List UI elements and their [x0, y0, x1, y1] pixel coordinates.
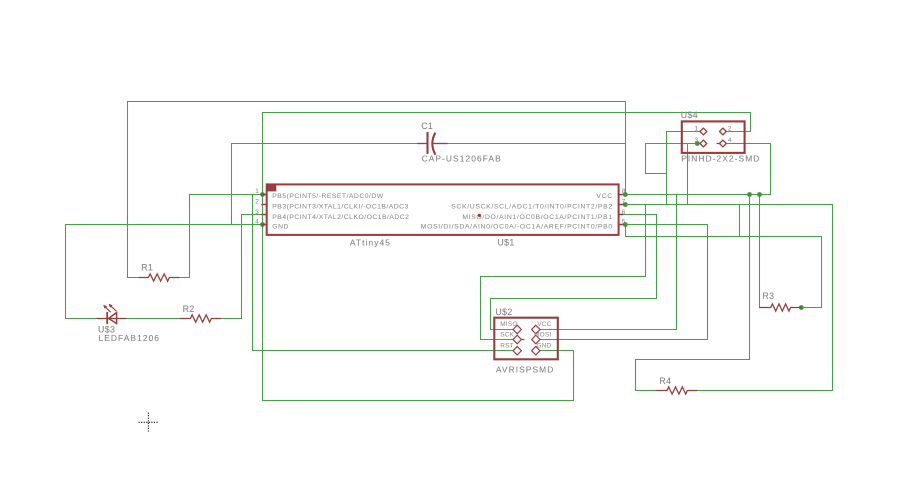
LED U$3	[97, 306, 127, 324]
pad U$4 2	[720, 128, 727, 135]
pin stub U1 pin1	[261, 194, 266, 196]
svg-text:6: 6	[622, 209, 626, 216]
wire VCC branch down-left to R4 left	[636, 195, 750, 391]
wire tie pin7 line to MOSI jog	[739, 205, 741, 237]
wire net RST: from pin1 line down to U$2 RST	[253, 195, 514, 351]
svg-text:PINHD-2X2-SMD: PINHD-2X2-SMD	[681, 154, 760, 164]
capacitor C1	[418, 132, 448, 155]
svg-text:PB4(PCINT4/XTAL2/CLKO/OC1B/ADC: PB4(PCINT4/XTAL2/CLKO/OC1B/ADC2	[272, 214, 409, 221]
svg-text:SCK: SCK	[500, 332, 514, 339]
pin stub U1 pin2	[261, 204, 266, 206]
pad U$2 GND	[532, 346, 540, 355]
node junction VCC line B	[757, 192, 762, 197]
svg-text:MISO/DO/AIN1/OC0B/OC1A/PCINT1/: MISO/DO/AIN1/OC0B/OC1A/PCINT1/PB1	[462, 214, 612, 221]
svg-text:8: 8	[622, 188, 626, 195]
wire U$4 pin4 to VCC line	[727, 144, 771, 195]
resistor R3	[760, 304, 802, 311]
svg-text:PB5(PCINT5/-RESET/ADC0/DW: PB5(PCINT5/-RESET/ADC0/DW	[272, 193, 383, 200]
svg-text:4: 4	[728, 137, 732, 144]
svg-text:RST: RST	[500, 342, 514, 349]
wire U1 pin8 VCC line right	[626, 194, 771, 196]
resistor R1	[139, 274, 180, 281]
svg-text:CAP-US1206FAB: CAP-US1206FAB	[422, 154, 502, 164]
pad U$4 4	[720, 140, 727, 147]
wire R2 right up to U1 pin3	[222, 215, 262, 319]
pin stub U1 pin7	[619, 204, 624, 206]
svg-text:3: 3	[255, 209, 259, 216]
pad U$4 1	[700, 128, 707, 135]
svg-text:7: 7	[622, 199, 626, 206]
svg-text:VCC: VCC	[537, 321, 551, 328]
svg-text:SCK/USCK/SCL/ADC1/T0/INT0/PCIN: SCK/USCK/SCL/ADC1/T0/INT0/PCINT2/PB2	[451, 204, 613, 211]
wire hanger from U$4 pin3 line down to pin7 line	[687, 144, 689, 205]
wire MOSI jog down right to R3 right	[626, 225, 822, 308]
svg-text:ATtiny45: ATtiny45	[350, 237, 391, 247]
node junction U1 pin8	[623, 192, 628, 197]
pin stub U1 pin6	[619, 214, 624, 216]
svg-text:MOSI: MOSI	[534, 332, 552, 339]
svg-text:3: 3	[694, 137, 698, 144]
svg-text:MOSI/DI/SDA/AIN0/OC0A/-OC1A/AR: MOSI/DI/SDA/AIN0/OC0A/-OC1A/AREF/PCINT0/…	[421, 224, 613, 231]
node junction U1 pin4	[260, 222, 265, 227]
svg-text:MISO: MISO	[500, 321, 518, 328]
wire C1 right to VCC vertical	[448, 143, 626, 145]
connector U$2 body	[494, 318, 558, 360]
node junction U$4 pin3	[695, 141, 700, 146]
resistor R2	[179, 315, 221, 322]
svg-text:LEDFAB1206: LEDFAB1206	[99, 333, 161, 343]
pad U$4 3	[700, 140, 707, 147]
wire U$4 pin3 jog	[646, 144, 695, 174]
svg-text:U$1: U$1	[497, 237, 514, 247]
svg-text:GND: GND	[272, 224, 289, 231]
wire LED anode to R2	[127, 318, 180, 320]
svg-text:R2: R2	[183, 304, 195, 314]
connector U$4 body	[682, 121, 745, 152]
svg-text:AVRISPSMD: AVRISPSMD	[496, 364, 554, 374]
svg-text:R3: R3	[762, 291, 774, 301]
pad U$2 SCK	[513, 335, 521, 344]
wire net GND main rail y=224.9 and down-left to LED	[66, 225, 263, 319]
IC U$1 corner mark	[267, 184, 277, 191]
wire SCK branch down-left to U$2 SCK	[481, 205, 646, 340]
svg-text:2: 2	[255, 199, 259, 206]
svg-text:VCC: VCC	[596, 193, 612, 200]
wire net VCC: R1 left up, top horizontal, down to U1 pin8	[128, 102, 626, 278]
node junction U1 pin1	[260, 192, 265, 197]
wire R1 right up to U1 pin1 line	[180, 195, 263, 278]
wire long vertical x=262.5 RESET/GND through U1 pins 1,4	[262, 113, 264, 401]
wire U1 pin7 SCK line right, down right side to R4 right	[626, 205, 833, 391]
svg-text:R1: R1	[141, 262, 153, 272]
LED U$3 light arrows	[103, 304, 112, 309]
pin stub U$2 SCK	[521, 339, 524, 341]
svg-text:4: 4	[255, 219, 259, 226]
pad U$2 MOSI	[532, 335, 540, 344]
svg-text:PB3(PCINT3/XTAL1/CLKI/-OC1B/AD: PB3(PCINT3/XTAL1/CLKI/-OC1B/ADC3	[272, 204, 408, 211]
node junction U1 pin5	[623, 222, 628, 227]
pin stub U1 pin8	[619, 194, 624, 196]
node red dot on MISO label	[478, 214, 481, 217]
pin stub U1 pin4	[261, 224, 266, 226]
wire net RESET: horizontal y=112 to U$4 pin2	[263, 113, 751, 132]
svg-text:1: 1	[255, 188, 259, 195]
wire U1 pin5 MOSI to U$2 MOSI	[541, 225, 708, 340]
svg-text:GND: GND	[536, 342, 551, 349]
wire C1 left leg down to GND rail	[232, 144, 418, 225]
node junction R3 right	[799, 305, 804, 310]
wire U$4 pin1 to SCK vertical	[667, 132, 700, 205]
wire VCC branch down to R3 left	[759, 195, 761, 308]
pin stub U1 pin5	[619, 224, 624, 226]
svg-text:2: 2	[728, 125, 732, 132]
pad U$2 VCC	[532, 325, 540, 334]
origin crosshair	[139, 413, 159, 433]
wire U1 pin6 MISO to U$2 MISO	[491, 215, 657, 330]
svg-text:U$4: U$4	[681, 110, 698, 120]
svg-text:5: 5	[622, 219, 626, 226]
pin stub U1 pin3	[261, 214, 266, 216]
node junction U1 pin7	[623, 202, 628, 207]
pad U$2 RST	[513, 346, 521, 355]
svg-text:1: 1	[694, 125, 698, 132]
pad U$2 MISO	[513, 325, 521, 334]
node junction VCC line A	[747, 192, 752, 197]
svg-text:C1: C1	[421, 121, 433, 131]
resistor R4	[656, 387, 698, 394]
IC U$1 ATtiny45 body	[267, 184, 619, 235]
wire VCC branch from pin8 line to U$2 VCC	[541, 195, 677, 330]
pin stub U$4 pin4	[717, 143, 720, 145]
svg-text:U$2: U$2	[495, 307, 512, 317]
svg-text:R4: R4	[659, 376, 671, 386]
wire net GND bottom run to U$2 GND	[263, 351, 574, 401]
